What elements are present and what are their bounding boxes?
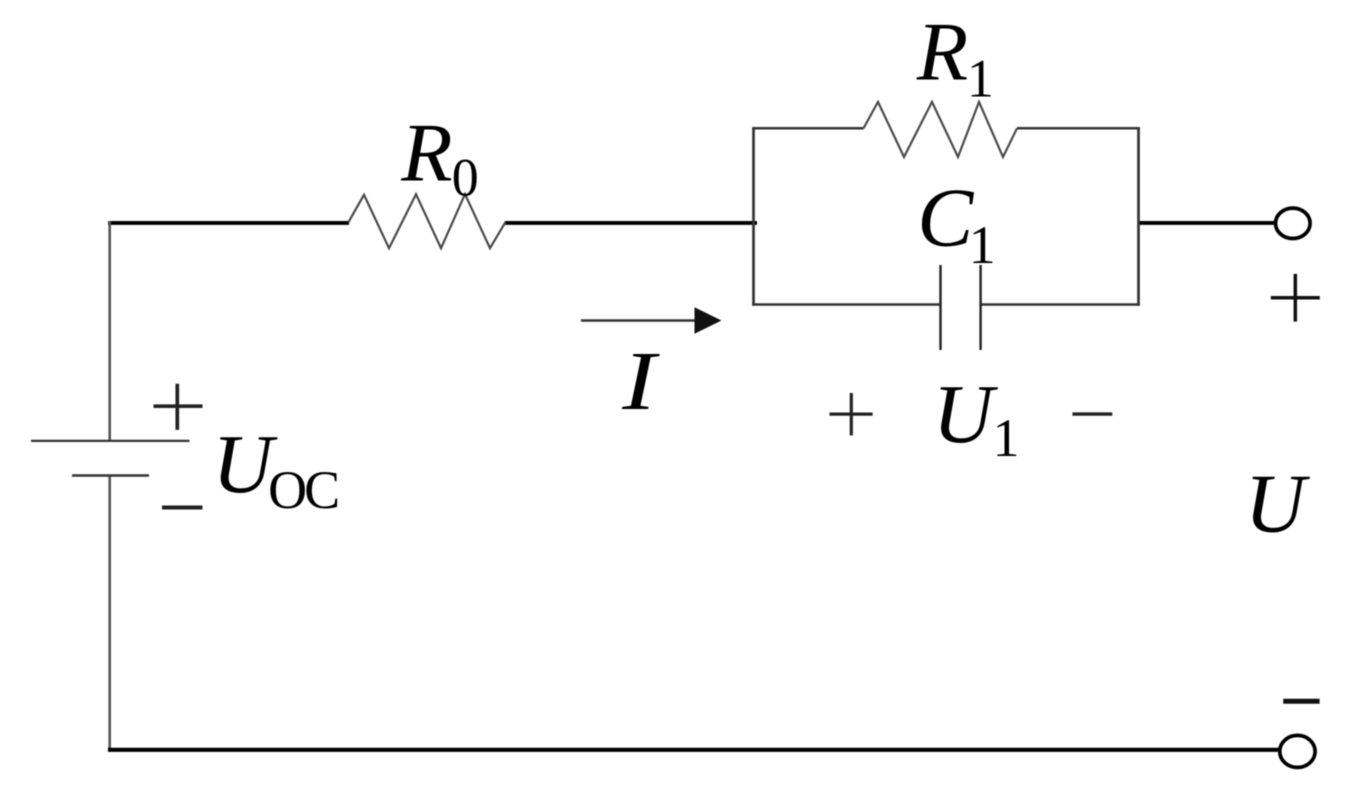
svg-text:0: 0 bbox=[452, 147, 479, 207]
svg-text:1: 1 bbox=[993, 408, 1020, 468]
svg-text:I: I bbox=[621, 335, 660, 428]
svg-text:OC: OC bbox=[268, 460, 338, 520]
svg-text:C: C bbox=[917, 172, 974, 265]
svg-text:U: U bbox=[933, 368, 999, 461]
svg-text:R: R bbox=[916, 5, 968, 98]
svg-text:1: 1 bbox=[969, 215, 996, 275]
svg-text:U: U bbox=[1245, 457, 1311, 550]
svg-text:1: 1 bbox=[967, 49, 994, 109]
svg-text:R: R bbox=[400, 107, 452, 200]
